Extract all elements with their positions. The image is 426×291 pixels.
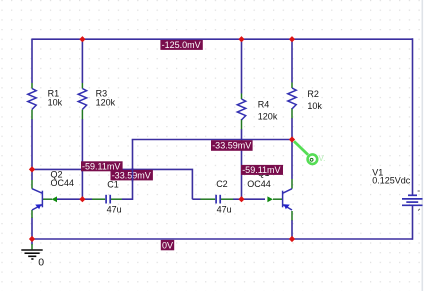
svg-text:OC44: OC44 [51, 178, 75, 188]
svg-text:10k: 10k [307, 101, 322, 111]
svg-text:0: 0 [38, 257, 44, 269]
svg-text:OC44: OC44 [247, 179, 271, 189]
svg-text:V.: V. [319, 154, 326, 163]
svg-text:10k: 10k [48, 98, 63, 108]
svg-text:C2: C2 [216, 179, 228, 189]
svg-text:0V: 0V [162, 240, 173, 250]
svg-text:C1: C1 [107, 180, 119, 190]
svg-text:R4: R4 [258, 100, 270, 110]
svg-text:R2: R2 [307, 89, 319, 99]
svg-text:-59.11mV: -59.11mV [242, 165, 280, 175]
svg-text:47u: 47u [217, 205, 232, 215]
svg-text:47u: 47u [107, 205, 122, 215]
svg-text:-125.0mV: -125.0mV [162, 40, 201, 50]
svg-text:-33.59mV: -33.59mV [212, 141, 251, 151]
svg-text:-33.59mV: -33.59mV [112, 170, 151, 180]
svg-text:120k: 120k [258, 112, 278, 122]
svg-text:0.125Vdc: 0.125Vdc [372, 175, 411, 185]
svg-text:120k: 120k [96, 98, 116, 108]
